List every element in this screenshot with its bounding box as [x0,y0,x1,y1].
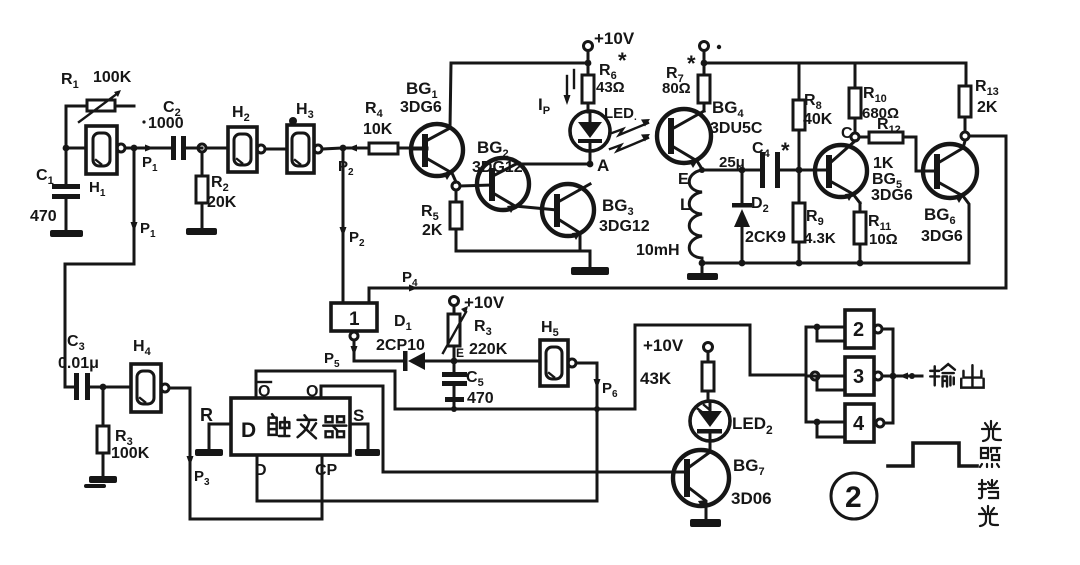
wire D line from P6 [257,455,597,501]
resistor R3b 100K [97,387,109,476]
capacitor C2 [171,136,202,160]
wire bottom rail second stage [702,262,969,265]
node R8 R9 junction [796,167,803,174]
wire E line to C4 [702,169,760,172]
svg-text:0.01μ: 0.01μ [58,355,99,372]
label C3 0.01u [58,333,99,372]
label R4 10K [363,100,393,138]
svg-text:10mH: 10mH [636,242,680,259]
label BG6 3DG6 [921,205,963,245]
node A [587,161,594,168]
svg-text:43Ω: 43Ω [596,79,625,96]
wire H2 to H3 [265,148,287,151]
label 25u C4 * [719,138,790,171]
svg-text:D: D [241,419,256,442]
LED1 [570,111,610,164]
label BG4 3DU5C [710,98,763,137]
gate 3 [806,357,882,395]
transistor BG3 [542,184,594,251]
label R3 220K [469,318,508,358]
wire node to R4 [343,147,369,150]
gates output bus [882,329,896,423]
ground BG3 [571,267,609,275]
wire +10V rail second stage [704,63,966,86]
diode D2 [732,170,752,263]
label shuchu output [930,364,983,388]
resistor R12 [859,132,929,171]
svg-text:3: 3 [853,366,864,388]
resistor R2 [196,152,208,228]
svg-text:2K: 2K [422,222,443,239]
svg-text:1: 1 [349,309,360,330]
node R2 junction [198,144,206,152]
label R7 * 80ohm [662,51,696,97]
capacitor C1 [52,148,80,230]
label R11 10ohm [868,213,898,248]
resistor R10 [849,63,861,133]
label R10 680ohm [862,85,899,122]
transistor BG5 [799,141,867,203]
filter H1 [66,126,134,174]
svg-text:2CK9: 2CK9 [745,229,786,246]
filter H5 [540,340,576,386]
svg-text:43K: 43K [640,369,672,388]
phototransistor BG4 [657,109,711,169]
ground rail2 [687,263,718,280]
svg-text:1000: 1000 [148,115,184,132]
pin S with ground [350,406,380,456]
svg-text:Q: Q [258,383,270,400]
label R6 * 43ohm [596,48,627,96]
label R12 1K [873,116,901,172]
svg-text:3DG12: 3DG12 [472,159,523,176]
label dangguang [979,480,998,526]
terminal +10V R3 [450,293,505,314]
label R1 100K [61,69,132,91]
label R13 2K [975,78,999,116]
svg-text:LED.: LED. [604,105,637,123]
svg-text:470: 470 [30,208,57,225]
svg-text:3DG12: 3DG12 [599,218,650,235]
svg-text:4.3K: 4.3K [804,230,836,247]
label C2 1000 [142,99,183,132]
svg-text:D: D [255,462,267,479]
output wire with arrow [893,373,922,380]
svg-text:E: E [678,171,689,188]
wire to H2 [206,147,228,150]
label R5 2K [421,203,443,239]
LED2 [690,401,730,450]
gate 2 [806,310,882,348]
wire Qbar line [256,371,395,409]
svg-text:*: * [687,51,696,76]
label D1 2CP10 [376,313,425,354]
figure number circled 2 [831,473,877,519]
resistor R9 [793,170,805,263]
label R2 20K [207,174,237,211]
node BG1 emitter junction [452,182,460,190]
ground BG7 [690,519,721,527]
label R8 40K [803,92,833,128]
resistor 43K [640,362,714,401]
wire P2 riser down [340,148,347,303]
svg-text:+10V: +10V [594,29,635,48]
label R3b 100K [111,428,150,462]
label C5 470 [466,369,494,407]
svg-text:Q: Q [306,383,318,400]
waveform pulse [888,443,977,466]
terminal +10V BG7 [643,336,713,362]
wire Q line to BG7 [321,386,673,472]
ground C1 [50,230,83,237]
svg-text:10K: 10K [363,121,393,138]
svg-text:100K: 100K [111,445,150,462]
monostable box 1 [331,303,377,331]
ground R3b [84,476,117,488]
transistor BG2 [477,158,557,213]
filter H3 [287,117,322,173]
diode D1 [403,351,540,371]
label C1 470 [30,167,57,225]
node C3 junction [100,384,107,391]
svg-text:3DG6: 3DG6 [921,228,963,245]
inductor L 10mH [689,170,702,263]
label BG1 3DG6 [400,79,442,116]
resistor R11 [854,203,866,263]
label Qbar [258,382,271,400]
node D2 top [739,167,746,174]
svg-text:CP: CP [315,462,338,479]
wire bottom rail first stage [456,251,590,267]
node E2 [451,346,464,364]
resistor R4 [369,143,427,154]
svg-text:220K: 220K [469,341,508,358]
resistor R8 [793,63,805,170]
svg-text:*: * [618,48,627,73]
wire BG2 collector to node A [516,163,590,166]
resistor R3 variable 220K [443,306,468,361]
filter H4 [131,364,190,412]
transistor BG1 [411,124,463,182]
light arrows LED1 to BG4 [610,119,650,151]
label BG3 3DG12 [599,196,650,235]
label BG5 3DG6 [871,171,913,204]
resistor R1 (variable 100K) [66,90,134,148]
svg-text:*: * [781,138,790,163]
label guangzhao [980,421,1001,467]
svg-text:2CP10: 2CP10 [376,337,425,354]
svg-text:R: R [200,405,213,425]
capacitor C3 [65,373,131,400]
capacitor C4 [760,152,799,188]
label E L 10mH [636,171,690,259]
node C [841,125,859,142]
svg-text:80Ω: 80Ω [662,80,691,97]
svg-text:4: 4 [853,413,865,435]
label D2 2CK9 [745,195,786,246]
svg-text:+10V: +10V [643,336,684,355]
gate 4 [806,404,884,442]
feedback wire P4 [369,136,1006,303]
resistor R7 [698,63,710,111]
svg-text:2K: 2K [977,99,998,116]
resistor R5 [450,190,462,251]
terminal +10V right [700,42,722,67]
node dots rail2 [699,260,864,267]
label BG7 3D06 [731,456,772,508]
wire P1 riser down [65,148,138,387]
node P2 junction with arrow [340,145,357,152]
node P1 junction [131,145,138,152]
svg-text:25μ: 25μ [719,154,745,171]
node C1 junction [63,145,70,152]
label BG2 3DG12 [472,138,523,176]
gates input bus [805,327,808,422]
wire BG1 collector to +10V rail [450,63,588,128]
svg-text:E: E [456,346,464,360]
svg-text:40K: 40K [803,111,833,128]
svg-text:A: A [597,156,609,175]
current Ip arrow [564,70,575,105]
capacitor C5 [442,361,467,409]
terminal +10V left [584,42,593,67]
svg-text:3D06: 3D06 [731,489,772,508]
svg-text:3DG6: 3DG6 [400,99,442,116]
svg-text:S: S [353,406,364,425]
wire emitter node to BG2 base [460,185,491,186]
transistor BG7 [673,450,729,519]
svg-text:1K: 1K [873,155,894,172]
resistor R13 [959,86,971,132]
node BG6 collector [961,132,969,140]
svg-text:L: L [680,195,690,214]
svg-text:470: 470 [467,390,494,407]
node L top junction [699,167,705,173]
transistor BG6 [923,141,977,263]
svg-text:10Ω: 10Ω [869,231,898,248]
arrow P3 [187,456,194,466]
wire CP line to P3 riser [190,388,322,519]
resistor R6 [582,63,594,112]
svg-text:+10V: +10V [464,293,505,312]
ground R2 [186,228,217,235]
filter H2 [228,127,265,172]
wire node to C2 with P1 arrow [134,145,171,152]
wire C5 bottom line to gates riser [395,325,806,409]
svg-text:3DU5C: 3DU5C [710,120,763,137]
svg-text:100K: 100K [93,69,132,86]
svg-text:2: 2 [853,319,864,341]
svg-text:C: C [841,125,853,142]
D flip-flop box [231,398,350,455]
wire H5 output P6 riser [576,363,601,501]
svg-text:3DG6: 3DG6 [871,187,913,204]
pin R with ground [195,405,231,456]
svg-text:20K: 20K [207,194,237,211]
box1 output bubble and P5 wire [350,332,404,361]
wire H3 to node P2 [322,148,343,149]
svg-text:2: 2 [845,481,862,514]
label R9 4.3K [804,208,836,247]
